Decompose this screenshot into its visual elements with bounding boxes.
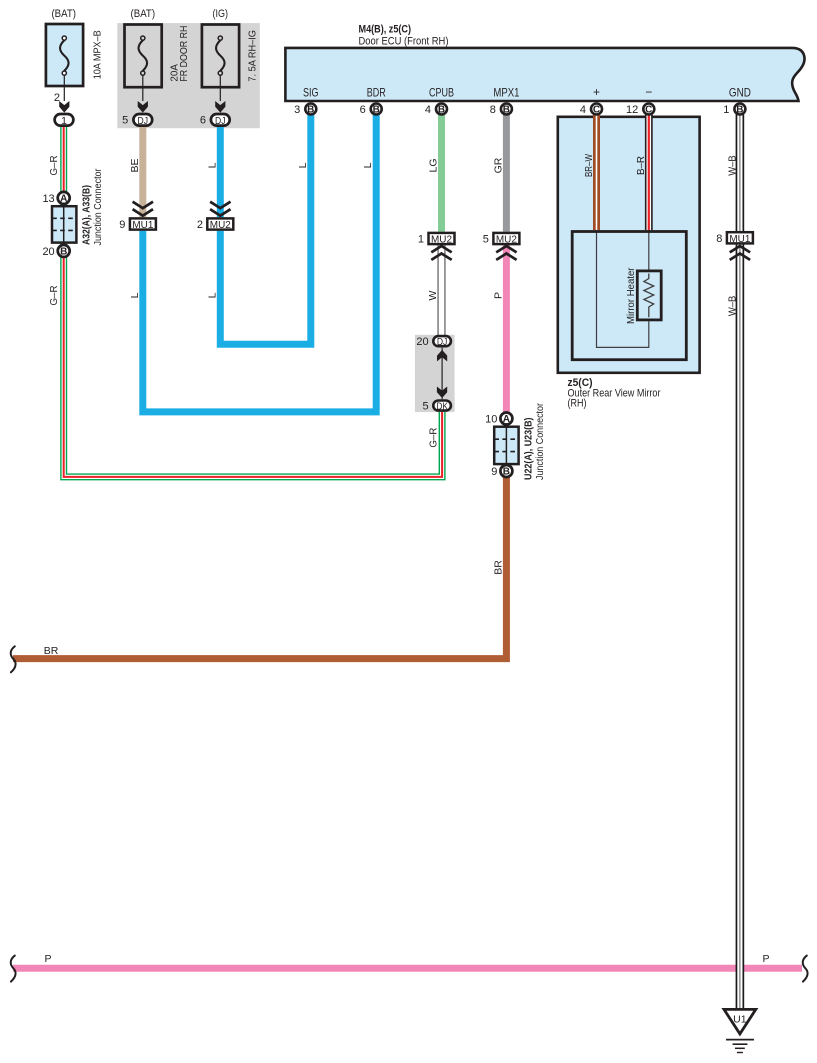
- svg-text:MU2: MU2: [431, 234, 452, 246]
- svg-text:U22(A), U23(B): U22(A), U23(B): [523, 418, 534, 481]
- svg-text:L: L: [206, 162, 218, 168]
- mirror inner box: [572, 232, 686, 360]
- connector box MU1 pin 8: [727, 232, 753, 243]
- svg-text:MU1: MU1: [132, 219, 153, 231]
- svg-text:GND: GND: [729, 86, 751, 100]
- ECU M4(B),z5(C) box: [285, 48, 804, 101]
- fuse panel gray box: [117, 23, 259, 128]
- node A of U22 junction: [500, 413, 512, 425]
- svg-text:B–R: B–R: [635, 156, 647, 175]
- arrow up to DJ: [437, 350, 447, 362]
- svg-text:SIG: SIG: [303, 86, 319, 100]
- connector oval DK pin 5: [433, 401, 451, 411]
- svg-text:B: B: [736, 104, 743, 115]
- svg-text:BDR: BDR: [367, 86, 386, 100]
- svg-text:Junction Connector: Junction Connector: [93, 168, 104, 246]
- wire GR MPX1 pin to MU2: [503, 109, 510, 232]
- wire L MU2 to SIG pin: [220, 109, 310, 344]
- svg-text:P: P: [762, 953, 769, 965]
- svg-text:L: L: [297, 162, 309, 168]
- arrow fuse3 to connector DJ: [215, 101, 225, 113]
- fuse 7.5A symbol: [216, 36, 225, 101]
- svg-text:3: 3: [294, 104, 300, 116]
- svg-text:DJ: DJ: [215, 115, 226, 127]
- resistor mirror heater element: [644, 274, 654, 318]
- svg-text:20: 20: [42, 246, 54, 258]
- svg-text:BE: BE: [129, 158, 141, 172]
- svg-text:A: A: [503, 414, 510, 425]
- node A of A32 junction: [58, 192, 70, 204]
- pin 1 B circle GND: [734, 104, 745, 115]
- svg-text:U1: U1: [733, 1014, 747, 1026]
- svg-text:A32(A), A33(B): A32(A), A33(B): [82, 185, 93, 245]
- pin 8 B circle MPX1: [501, 104, 512, 115]
- svg-text:12: 12: [626, 104, 638, 116]
- mirror internal wiring: [597, 230, 649, 347]
- chevron arrows into MU2: [210, 202, 230, 216]
- arrow fuse1 to connector 1: [59, 101, 69, 113]
- pin 6 B circle BDR: [371, 104, 382, 115]
- svg-text:1: 1: [61, 115, 67, 127]
- connector oval 1: [55, 114, 74, 126]
- wire W-B GND pin to ground U1: [736, 109, 745, 1008]
- svg-text:1: 1: [418, 234, 424, 246]
- svg-text:8: 8: [716, 233, 722, 245]
- svg-text:L: L: [129, 292, 141, 298]
- svg-text:+: +: [593, 85, 600, 99]
- svg-text:A: A: [60, 193, 67, 204]
- svg-text:(RH): (RH): [568, 398, 587, 410]
- svg-text:G–R: G–R: [48, 155, 60, 175]
- svg-text:Door ECU (Front RH): Door ECU (Front RH): [359, 35, 449, 47]
- fuse 7.5A RH-IG box: [202, 25, 239, 88]
- svg-text:(IG): (IG): [213, 8, 229, 20]
- svg-text:10: 10: [485, 414, 497, 426]
- svg-text:C: C: [593, 104, 600, 115]
- node B of A32 junction: [58, 245, 70, 257]
- svg-text:BR: BR: [44, 645, 59, 657]
- svg-text:G–R: G–R: [427, 427, 439, 447]
- junction connector U22(A),U23(B) box: [494, 427, 518, 464]
- svg-text:B: B: [503, 104, 510, 115]
- wire L MU1 to BDR pin: [143, 109, 376, 412]
- fuse 20A FR DOOR RH box: [125, 25, 162, 88]
- svg-text:5: 5: [483, 234, 489, 246]
- svg-text:1: 1: [723, 104, 729, 116]
- wire break squiggle P right: [803, 956, 808, 982]
- mirror z5(C) outer box: [558, 117, 700, 373]
- svg-text:GR: GR: [492, 157, 504, 173]
- svg-text:Junction Connector: Junction Connector: [535, 402, 546, 480]
- svg-text:B: B: [307, 104, 314, 115]
- svg-text:7. 5A RH–IG: 7. 5A RH–IG: [248, 30, 259, 82]
- svg-text:6: 6: [360, 104, 366, 116]
- wire B-R minus pin to mirror: [645, 109, 653, 230]
- node B of U22 junction: [500, 465, 512, 477]
- svg-text:5: 5: [422, 401, 428, 413]
- connector box MU2 pin 2: [207, 218, 233, 229]
- wire G-R from fuse 10A via A32 junction to DK: [64, 124, 442, 477]
- svg-text:2: 2: [54, 92, 60, 104]
- pin 12 C circle minus: [643, 104, 654, 115]
- svg-text:M4(B), z5(C): M4(B), z5(C): [359, 24, 412, 36]
- wire break squiggle BR left: [11, 646, 16, 672]
- svg-text:8: 8: [490, 104, 496, 116]
- svg-text:BR–W: BR–W: [583, 154, 595, 177]
- svg-text:DJ: DJ: [437, 336, 448, 348]
- fuse 20A symbol: [139, 36, 148, 101]
- wire P bottom horizontal: [13, 965, 802, 972]
- svg-text:B: B: [373, 104, 380, 115]
- wire LG CPUB pin to MU2: [438, 109, 445, 232]
- svg-text:−: −: [645, 85, 652, 99]
- wire BE fuse 20A to MU1: [139, 124, 146, 217]
- svg-text:P: P: [44, 953, 51, 965]
- svg-text:13: 13: [42, 193, 54, 205]
- connector box MU2 pin 1: [429, 233, 455, 244]
- svg-text:C: C: [645, 104, 652, 115]
- svg-text:G–R: G–R: [48, 285, 60, 305]
- svg-text:4: 4: [580, 104, 586, 116]
- svg-text:2: 2: [197, 219, 203, 231]
- chevron arrows into MU1: [133, 202, 153, 216]
- connector box MU1 pin 9: [130, 218, 156, 229]
- junction connector A32(A),A33(B) box: [52, 206, 76, 242]
- svg-text:L: L: [362, 162, 374, 168]
- mirror heater box: [637, 271, 661, 320]
- wire W MU2 to DJ: [438, 245, 446, 336]
- connector box MU2 pin 5: [493, 233, 519, 244]
- svg-text:B: B: [60, 246, 67, 257]
- svg-text:BR: BR: [492, 560, 504, 575]
- wire DJ to DK: [441, 348, 443, 400]
- chevron arrows out of MU2 pin1: [431, 246, 451, 260]
- svg-text:W–B: W–B: [726, 296, 738, 317]
- svg-text:10A MPX–B: 10A MPX–B: [93, 30, 104, 79]
- wire BR-W plus pin to mirror: [593, 109, 600, 230]
- svg-text:MU1: MU1: [729, 233, 750, 245]
- chevron arrows out of MU1 pin8: [730, 246, 750, 260]
- svg-text:9: 9: [491, 466, 497, 478]
- svg-text:9: 9: [119, 219, 125, 231]
- pin 3 B circle SIG: [305, 104, 316, 115]
- wire BR U22 junction to left edge: [13, 477, 506, 659]
- connector oval DJ pin 6: [211, 114, 230, 126]
- fuse 10A MPX-B symbol: [60, 36, 69, 101]
- svg-text:(BAT): (BAT): [51, 8, 76, 20]
- relay block DJ-DK gray box: [415, 335, 455, 412]
- pin 4 C circle plus: [591, 104, 602, 115]
- svg-text:MU2: MU2: [496, 234, 517, 246]
- fuse 10A MPX-B box: [46, 24, 83, 86]
- svg-text:CPUB: CPUB: [429, 86, 454, 100]
- svg-text:6: 6: [200, 115, 206, 127]
- wire break squiggle P left: [11, 956, 16, 982]
- connector oval DJ pin 5: [133, 114, 152, 126]
- svg-text:W–B: W–B: [726, 155, 738, 176]
- pin 4 B circle CPUB: [436, 104, 447, 115]
- svg-text:B: B: [503, 466, 510, 477]
- ground hatch: [726, 1039, 754, 1041]
- chevron arrows out of MU2 pin5: [496, 246, 516, 260]
- svg-text:(BAT): (BAT): [131, 8, 156, 20]
- svg-text:LG: LG: [428, 158, 440, 172]
- arrow fuse2 to connector DJ: [138, 101, 148, 113]
- svg-text:P: P: [492, 292, 504, 299]
- arrow down to DK: [437, 387, 447, 399]
- svg-text:MPX1: MPX1: [493, 86, 519, 100]
- svg-text:5: 5: [122, 115, 128, 127]
- svg-text:L: L: [206, 292, 218, 298]
- svg-text:W: W: [427, 290, 439, 300]
- svg-text:DK: DK: [436, 400, 448, 412]
- connector oval DJ pin 20: [433, 336, 451, 346]
- wire L fuse 7.5A to MU2: [217, 124, 224, 217]
- svg-text:20: 20: [416, 336, 428, 348]
- wire P MU2 to U22 junction: [503, 245, 510, 414]
- svg-text:MU2: MU2: [210, 219, 231, 231]
- svg-text:B: B: [438, 104, 445, 115]
- svg-text:Mirror Heater: Mirror Heater: [626, 267, 637, 324]
- ground U1 triangle: [724, 1009, 756, 1034]
- svg-text:4: 4: [425, 104, 431, 116]
- svg-text:DJ: DJ: [138, 115, 149, 127]
- svg-text:FR DOOR RH: FR DOOR RH: [179, 26, 190, 82]
